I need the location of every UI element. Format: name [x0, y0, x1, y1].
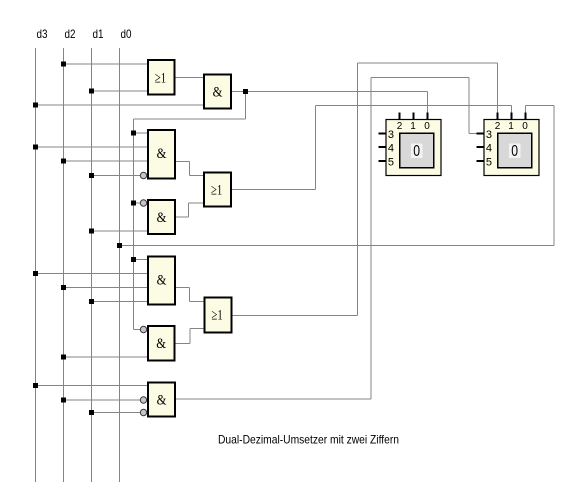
- junction d1/U1-B: [89, 89, 94, 94]
- or-gate U1: [147, 59, 176, 96]
- svg-text:≥1: ≥1: [155, 71, 166, 87]
- svg-text:4: 4: [486, 143, 492, 155]
- svg-text:d3: d3: [37, 27, 48, 41]
- junction d2/U7-B: [61, 355, 66, 360]
- svg-text:&: &: [157, 210, 167, 226]
- svg-text:d0: d0: [121, 27, 132, 41]
- svg-text:2: 2: [397, 121, 403, 132]
- and-gate U4: [147, 199, 176, 235]
- svg-text:&: &: [156, 336, 166, 352]
- wire N1 to U3 input A: [134, 132, 148, 134]
- svg-text:Dual-Dezimal-Umsetzer mit zwei: Dual-Dezimal-Umsetzer mit zwei Ziffern: [218, 433, 399, 447]
- svg-text:0: 0: [424, 121, 430, 132]
- display DIS1 pin stub 4: [379, 146, 386, 148]
- wire U4 output to U5 input B: [176, 216, 189, 218]
- or-gate U8: [204, 297, 233, 334]
- junction d1/U4-B: [89, 229, 94, 234]
- wire d2 to U9 input B: [64, 399, 141, 401]
- wire d1 to U9 input C: [92, 412, 141, 414]
- wire d1 to U4 input B: [92, 230, 148, 232]
- display DIS2 pin stub 0: [525, 113, 527, 120]
- junction d1/U9-C: [89, 410, 94, 415]
- junction d0/DIS2-0: [117, 243, 122, 248]
- svg-text:&: &: [157, 273, 167, 289]
- wire d2 to U7 input B: [64, 356, 148, 358]
- svg-text:5: 5: [486, 156, 492, 168]
- display DIS1 pin stub 0: [427, 113, 429, 120]
- wire d2 to U1 input A: [64, 63, 148, 65]
- junction d3/U2-B: [33, 103, 38, 108]
- wire U6 output to U8 input A: [176, 287, 190, 289]
- wire U9 output to display DIS2 pin 3: [176, 398, 371, 400]
- and-gate U7: [147, 325, 176, 362]
- wire node N1 vertical feed: [133, 119, 135, 330]
- wire N1 to U4 input A: [134, 202, 141, 204]
- junction d2/U3-C: [61, 159, 66, 164]
- inverted input bubble U4-A: [140, 200, 146, 206]
- or-gate U5: [203, 172, 232, 208]
- inverted input bubble U9-C: [140, 409, 146, 415]
- wire d3 to U9 input A: [36, 385, 148, 387]
- svg-text:1: 1: [410, 121, 416, 132]
- display DIS1 pin stub 2: [399, 113, 401, 120]
- node d3 (input line): [35, 48, 37, 482]
- svg-text:d2: d2: [65, 27, 76, 41]
- junction d1/U6-D: [89, 299, 94, 304]
- svg-text:&: &: [157, 146, 167, 162]
- and-gate U9: [147, 382, 176, 418]
- display DIS2 pin stub 4: [477, 146, 484, 148]
- display DIS2 pin stub 5: [477, 160, 484, 162]
- wire U1 output to U2 input A: [176, 77, 204, 79]
- junction d2/U9-B: [61, 398, 66, 403]
- wire U2 output to display DIS1 pin 0: [232, 91, 428, 93]
- wire N1 to U6 input A: [134, 259, 148, 261]
- wire d1 to U3 input D: [92, 175, 141, 177]
- display DIS1 pin stub 1: [413, 113, 415, 120]
- and-gate U3: [147, 129, 176, 180]
- svg-text:2: 2: [495, 121, 501, 132]
- wire d1 to U6 input D: [92, 301, 148, 303]
- inverted input bubble U9-B: [140, 397, 146, 403]
- wire d0 to display DIS2 pin 0: [120, 245, 555, 247]
- wire U2 output branch down to node N1: [245, 92, 247, 120]
- display DIS1 pin stub 3: [379, 133, 386, 135]
- junction d2/U1-A: [61, 62, 66, 67]
- node d0 (input line): [119, 48, 121, 482]
- wire U8 output to display DIS2 pin 2: [233, 315, 358, 317]
- display DIS2 pin stub 3: [477, 133, 484, 135]
- junction d3/U6-B: [33, 271, 38, 276]
- junction d2/U6-C: [61, 285, 66, 290]
- display DIS2 pin stub 2: [497, 113, 499, 120]
- display DIS2 body: [484, 120, 539, 176]
- svg-text:0: 0: [522, 121, 528, 132]
- wire d3 to U3 input B: [36, 146, 148, 148]
- node d2 (input line): [63, 48, 65, 482]
- junction N1/U3-A: [131, 131, 136, 136]
- svg-text:&: &: [157, 393, 167, 409]
- display DIS1 pin stub 5: [379, 160, 386, 162]
- svg-text:4: 4: [388, 143, 394, 155]
- inverted input bubble U3-D: [140, 172, 146, 178]
- wire U7 output to U8 input B: [176, 343, 191, 345]
- wire d2 to U6 input C: [64, 287, 148, 289]
- svg-text:3: 3: [388, 129, 394, 141]
- svg-text:5: 5: [388, 156, 394, 168]
- svg-text:1: 1: [508, 121, 514, 132]
- wire d2 to U3 input C: [64, 160, 148, 162]
- junction d3/U9-A: [33, 383, 38, 388]
- and-gate U6: [147, 256, 176, 306]
- junction d1/U3-D: [89, 173, 94, 178]
- display DIS1 body: [386, 120, 441, 176]
- wire U3 output to U5 input A: [176, 161, 190, 163]
- wire U5 output to display DIS2 pin 1: [232, 189, 316, 191]
- svg-text:0: 0: [511, 143, 518, 160]
- and-gate U2: [203, 74, 232, 110]
- node d1 (input line): [91, 48, 93, 482]
- wire d3 to U2 input B: [36, 104, 204, 106]
- svg-text:≥1: ≥1: [212, 308, 223, 324]
- svg-text:0: 0: [413, 143, 420, 160]
- wire N1 to U7 input A: [134, 329, 141, 331]
- junction d3/U3-B: [33, 145, 38, 150]
- svg-text:&: &: [213, 85, 223, 101]
- svg-text:d1: d1: [93, 27, 104, 41]
- wire d3 to U6 input B: [36, 273, 148, 275]
- junction U2 output: [243, 89, 248, 94]
- svg-text:3: 3: [486, 129, 492, 141]
- junction N1/U6-A: [131, 257, 136, 262]
- junction N1/U4-A: [131, 201, 136, 206]
- wire d1 to U1 input B: [92, 90, 148, 92]
- display DIS2 pin stub 1: [511, 113, 513, 120]
- inverted input bubble U7-A: [140, 326, 146, 332]
- svg-text:≥1: ≥1: [211, 183, 222, 199]
